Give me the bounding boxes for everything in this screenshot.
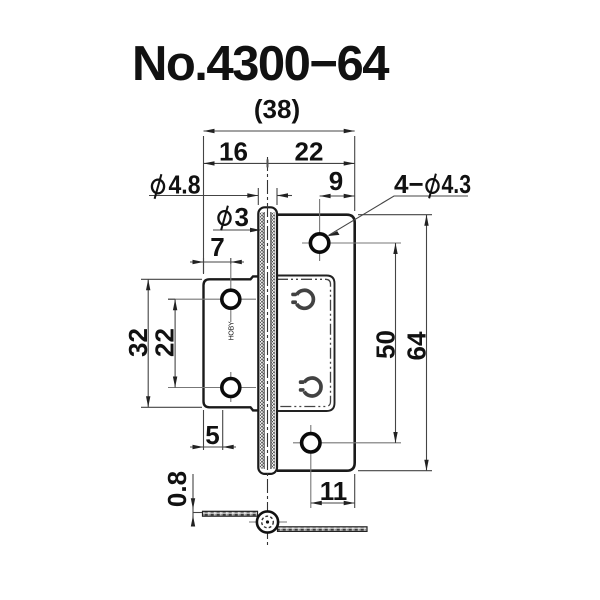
- dimension 0.8: [193, 474, 202, 523]
- dimension 9: [320, 195, 355, 197]
- dimension 22 left: [168, 299, 175, 387]
- dimension 16 / 22 top: [204, 159, 355, 167]
- dimension 11: [311, 474, 355, 508]
- recess outline (solid): [277, 276, 335, 412]
- label 4-phi4.3 leader: [329, 196, 468, 235]
- svg-text:4.8: 4.8: [169, 170, 201, 200]
- barrel knurl texture: [260, 213, 264, 469]
- hole right-bottom: [293, 425, 401, 508]
- svg-text:7: 7: [210, 232, 224, 262]
- dimension (38): [204, 131, 355, 273]
- svg-text:4.3: 4.3: [442, 169, 472, 199]
- dimension phi4.8: [149, 188, 292, 205]
- svg-text:22: 22: [150, 328, 180, 357]
- dimension 50: [395, 243, 397, 443]
- dimension 32: [141, 279, 202, 407]
- hole left-bottom: [168, 372, 256, 402]
- dimension 7: [190, 258, 244, 274]
- pin barrel: [258, 207, 277, 474]
- svg-text:50: 50: [371, 330, 401, 359]
- svg-text:16: 16: [219, 137, 248, 167]
- side view right leaf bar: [278, 527, 368, 532]
- dimension 64: [358, 215, 432, 471]
- left leaf outline: [204, 276, 259, 410]
- hole right-top: [302, 199, 401, 261]
- snap ring bottom: [299, 378, 321, 396]
- side view left leaf bar: [203, 511, 258, 516]
- svg-text:4−: 4−: [394, 169, 424, 199]
- svg-text:64: 64: [402, 331, 432, 360]
- dimension 5: [190, 410, 236, 450]
- hole left-top: [168, 264, 256, 322]
- svg-text:0.8: 0.8: [162, 471, 192, 507]
- svg-text:5: 5: [205, 420, 219, 450]
- pin centerline: [267, 157, 269, 547]
- svg-text:3: 3: [235, 202, 249, 232]
- svg-text:9: 9: [329, 166, 343, 196]
- svg-text:11: 11: [320, 476, 348, 506]
- svg-text:22: 22: [295, 137, 324, 167]
- svg-text:HOBY: HOBY: [229, 321, 236, 340]
- svg-text:(38): (38): [254, 94, 300, 124]
- dimension phi3: [213, 229, 260, 231]
- alternate-position chain rectangle (folded leaf): [277, 279, 331, 406]
- svg-text:No.4300−64: No.4300−64: [132, 37, 389, 91]
- side view knuckle circle: [249, 511, 287, 532]
- snap ring top: [291, 290, 313, 308]
- right leaf outline: [277, 215, 355, 471]
- svg-text:32: 32: [123, 328, 153, 357]
